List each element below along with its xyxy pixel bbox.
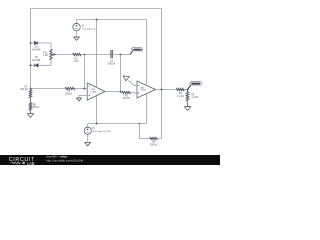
junction R2/C1/feedback — [84, 54, 86, 56]
junction neg rail / R6 branch — [139, 123, 141, 125]
wire negative supply rail — [88, 123, 147, 125]
wire OA1 + input to ground — [79, 96, 87, 99]
resistor R6 — [150, 137, 158, 139]
wire feedback vertical to inverting input — [84, 55, 86, 89]
voltage source V1 stubs — [76, 20, 78, 38]
junction left rail / R7 — [30, 88, 32, 90]
wire OA1 output — [105, 92, 122, 93]
ground V2 — [85, 142, 91, 146]
svg-text:1N4148: 1N4148 — [32, 49, 41, 51]
wire R3 to OA2 + input — [131, 92, 137, 95]
wire R4 to divider — [184, 89, 187, 91]
op-amp OA2 V- pin wire — [146, 94, 148, 124]
resistor R5 — [186, 90, 189, 101]
svg-text:RV1: RV1 — [43, 53, 48, 55]
junction left rail / D2 — [30, 64, 32, 66]
ground V1 — [74, 37, 80, 40]
potentiometer RV1 wiper arrow head — [52, 54, 54, 56]
node flag TRI box — [132, 48, 143, 51]
svg-text:1.2 kΩ: 1.2 kΩ — [177, 96, 184, 98]
wire left rail to R1 — [31, 88, 66, 90]
junction divider — [187, 89, 189, 91]
frame background — [0, 0, 220, 165]
voltage source V1 circle — [73, 23, 80, 30]
ground OA1 + input — [77, 98, 82, 101]
junction inverting input — [84, 88, 86, 90]
svg-text:500 pF: 500 pF — [108, 64, 116, 66]
wire C1 to flag node — [112, 54, 130, 56]
voltage source V1 plus/minus — [75, 25, 77, 29]
resistor R4 — [176, 88, 184, 90]
wire R6 branch — [140, 124, 162, 139]
wire R7-R8 join — [30, 98, 32, 114]
svg-text:1 kΩ: 1 kΩ — [74, 61, 79, 63]
op-amp OA1 V+ pin wire — [96, 20, 98, 89]
svg-text:TL081: TL081 — [140, 90, 147, 92]
svg-text:10·(1-exp(-5·t)): 10·(1-exp(-5·t)) — [82, 27, 96, 30]
op-amp OA1 body — [87, 83, 105, 100]
svg-text:100 kΩ: 100 kΩ — [123, 98, 131, 100]
resistor R8 (lower of left chain) — [29, 103, 32, 111]
wire R5 to ground stub — [187, 101, 189, 107]
svg-text:SQUARE: SQUARE — [192, 83, 201, 86]
svg-text:-10·(1-exp(-5·t)) PWL: -10·(1-exp(-5·t)) PWL — [92, 130, 112, 133]
node flag VOUT box — [190, 82, 201, 85]
voltage source V2 circle — [84, 127, 91, 134]
junction left rail / D1 — [30, 42, 32, 44]
diode D1 cathode bar — [37, 41, 39, 44]
op-amp OA2 body — [137, 81, 156, 98]
junction C1 right / OA1 out riser — [120, 54, 122, 56]
svg-text:1.2 kΩ: 1.2 kΩ — [191, 97, 198, 99]
ground left chain — [27, 114, 33, 118]
svg-text:http://circuitlab.com/c/5p26fd: http://circuitlab.com/c/5p26fd — [46, 159, 83, 163]
svg-text:LAB: LAB — [27, 161, 35, 165]
junction OA1 output / riser — [120, 91, 122, 93]
wire outer feedback loop (left rail / top rail / right drop) — [31, 9, 162, 139]
capacitor C1 right plate — [111, 50, 113, 58]
wire D1 branch — [31, 43, 52, 49]
potentiometer RV1 wiper arrow shaft — [54, 54, 56, 56]
wire R1 to OA1 inverting input — [75, 88, 87, 90]
svg-text:100 kΩ: 100 kΩ — [20, 89, 28, 91]
svg-text:1N4148: 1N4148 — [32, 60, 41, 62]
svg-text:200 kΩ: 200 kΩ — [150, 144, 158, 146]
node flag VOUT leader — [188, 85, 191, 89]
node flag VOUT text blob — [191, 83, 200, 85]
wire wiper to R2 — [56, 54, 72, 56]
wire R2 to C1 — [81, 54, 111, 56]
potentiometer RV1 body — [50, 49, 53, 60]
wire riser output to C1 — [120, 55, 122, 92]
wire D2 branch — [31, 60, 52, 66]
svg-text:TL081: TL081 — [91, 91, 98, 93]
resistor R3 — [122, 91, 131, 93]
op-amp OA1 minus mark — [89, 85, 90, 87]
capacitor C1 left plate — [110, 50, 112, 58]
wire OA2 - input to ground — [129, 80, 137, 85]
svg-text:510 Ω: 510 Ω — [33, 107, 39, 109]
resistor R1 — [65, 87, 75, 89]
svg-text:100 kΩ: 100 kΩ — [65, 93, 73, 95]
wire V1 positive rail — [77, 20, 147, 85]
op-amp OA2 plus mark — [138, 92, 139, 93]
wire OA2 output — [156, 89, 177, 91]
junction V1 rail / OA1 V+ — [96, 19, 98, 21]
ground R5 — [184, 107, 190, 111]
diode D2 cathode bar — [34, 64, 36, 67]
resistor R7 (upper of left chain) — [29, 89, 32, 98]
ground OA2 - input (rotated) — [123, 76, 129, 81]
op-amp OA2 minus mark — [138, 85, 139, 87]
voltage source V2 stubs — [87, 124, 89, 143]
diode D1 — [34, 41, 37, 44]
op-amp OA1 plus mark — [89, 95, 90, 96]
node flag TRI leader — [130, 51, 132, 54]
diode D2 — [35, 64, 38, 67]
junction outer loop / OA2 output — [161, 89, 163, 91]
logo resistor zig — [10, 162, 21, 164]
junction neg rail / OA1 V- — [96, 123, 98, 125]
voltage source V2 plus/minus — [87, 128, 89, 132]
svg-text:TRIANGLE: TRIANGLE — [132, 49, 142, 52]
svg-text:1 kΩ: 1 kΩ — [43, 55, 48, 57]
resistor R2 — [73, 53, 81, 56]
logo cap glyph — [23, 162, 25, 164]
node flag TRI text blob — [133, 49, 140, 51]
watermark bar — [0, 155, 220, 165]
op-amp OA1 V- pin wire — [96, 96, 98, 123]
